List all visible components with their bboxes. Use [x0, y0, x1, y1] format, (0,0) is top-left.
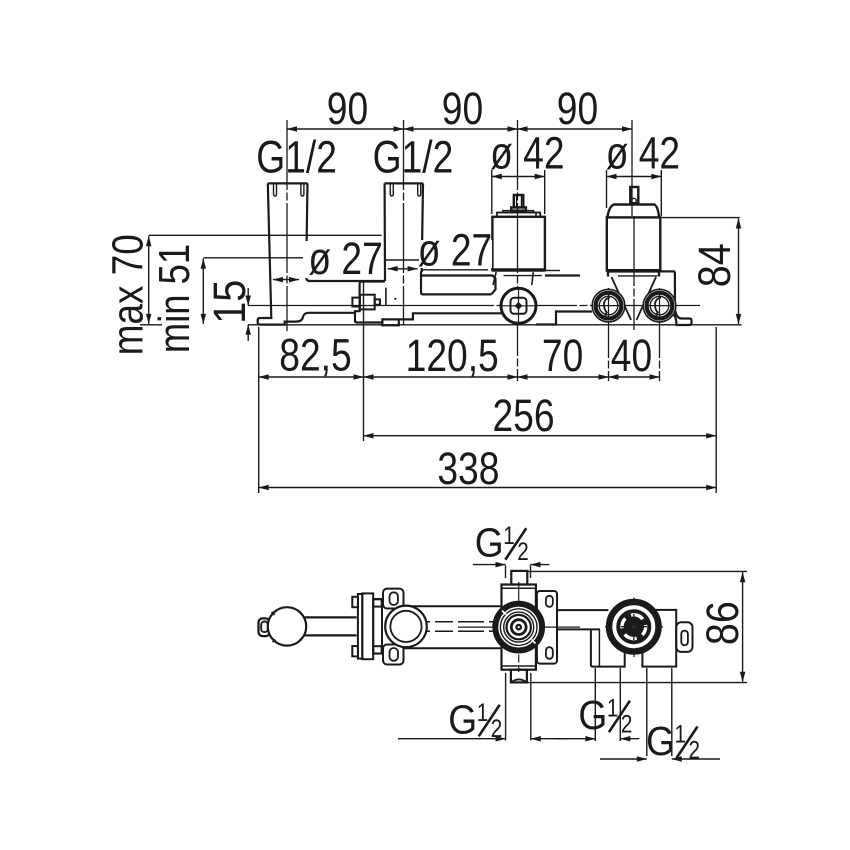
- cartridge2 stem hole: [632, 198, 637, 203]
- svg-text:max 70: max 70: [103, 234, 152, 355]
- svg-text:2: 2: [621, 711, 633, 739]
- ball clip: [259, 618, 270, 636]
- bottom port mouth arc: [511, 679, 526, 682]
- centerline tube1: [286, 120, 288, 331]
- row2 dim 256: [364, 435, 717, 437]
- centerline cartridge2: [631, 120, 633, 216]
- plan bar left: [404, 606, 502, 648]
- plan cartridge circle crosshair: [458, 626, 580, 628]
- svg-text:2: 2: [491, 715, 503, 743]
- right block: [642, 610, 676, 667]
- centerline elbow circle B: [659, 288, 661, 381]
- centerline main axis: [248, 305, 700, 307]
- cartridge1 (diverter): [492, 195, 545, 270]
- min51 dimension line: [202, 259, 204, 324]
- min51 reference line: [203, 257, 306, 259]
- cartridge2 dim ticks: [606, 170, 608, 208]
- plan circle2 rings: [607, 600, 661, 654]
- right end of body: [660, 270, 675, 272]
- circle-square port under cartridge1: [501, 288, 536, 323]
- max70 reference line: [149, 234, 382, 236]
- svg-text:86: 86: [697, 601, 748, 645]
- svg-text:G: G: [646, 718, 675, 764]
- svg-text:70: 70: [542, 330, 583, 381]
- cartridge2 bottom heavy edge: [607, 269, 660, 273]
- svg-text:84: 84: [689, 243, 740, 287]
- svg-text:256: 256: [492, 390, 554, 441]
- bottom port: [511, 670, 527, 683]
- row1 dimension lines: [259, 376, 364, 378]
- svg-text:G: G: [448, 696, 477, 742]
- dim 84 extension top: [660, 217, 740, 219]
- centerline tube2: [403, 120, 405, 325]
- svg-text:2: 2: [689, 737, 701, 765]
- body bottom right of circle1: [536, 312, 592, 325]
- dim arrows o27 tube1: [273, 279, 299, 281]
- center block: [355, 282, 503, 326]
- dim 15 arrows: [247, 288, 249, 306]
- svg-text:ø 27: ø 27: [418, 225, 492, 276]
- row3 dim 338: [259, 487, 717, 489]
- max70 dimension line: [148, 236, 150, 324]
- tube G1/2 left (tube1): [258, 183, 355, 324]
- tube G1/2 right (tube2): [385, 183, 423, 281]
- svg-text:ø 27: ø 27: [308, 233, 382, 284]
- tube1 thread slots: [274, 183, 277, 196]
- G1/2 bottom dim 3: [646, 668, 648, 756]
- svg-text:ø 42: ø 42: [606, 128, 680, 179]
- svg-text:90: 90: [327, 83, 368, 134]
- elbow circle B: [643, 289, 676, 322]
- cartridge1 boss shoulders: [493, 272, 496, 285]
- inlet bolt: [352, 295, 380, 310]
- svg-text:338: 338: [437, 443, 499, 494]
- mounting reference line: [248, 324, 742, 326]
- bottom dim row1 extensions: [258, 327, 260, 493]
- svg-text:G: G: [475, 520, 504, 566]
- label G1/2 plan bottom3: [646, 718, 700, 765]
- cartridge1 dim ticks: [491, 170, 493, 214]
- right ear: [676, 622, 692, 652]
- cartridge1 bottom heavy edge: [493, 268, 545, 272]
- svg-text:G: G: [578, 692, 607, 738]
- label G1/2 plan top: [475, 520, 529, 567]
- dimension 90 row line: [287, 128, 404, 130]
- svg-text:min 51: min 51: [150, 244, 199, 353]
- dim arrows o27 tube2: [388, 268, 418, 270]
- svg-text:40: 40: [611, 330, 652, 381]
- dim 86 extensions: [527, 570, 747, 572]
- bottom tab1: [591, 629, 625, 666]
- cartridge1 stem inner lines: [516, 196, 518, 207]
- label o27 #1 with knockout: [303, 241, 383, 278]
- elbow circle A: [592, 289, 625, 322]
- svg-text:82,5: 82,5: [279, 330, 351, 381]
- housing mount plate: [537, 591, 557, 664]
- min51 tick on tube2: [386, 259, 422, 261]
- V slants to saddle: [612, 277, 632, 320]
- label G1/2 plan bottom2: [578, 692, 632, 739]
- flange ears: [383, 589, 404, 609]
- dim 84 line: [738, 219, 740, 324]
- bottom tab: [382, 313, 503, 325]
- label G1/2 plan bottom1: [448, 696, 502, 743]
- svg-text:2: 2: [517, 538, 529, 566]
- G1/2 bottom dim 1: [505, 673, 507, 741]
- dim arrows o42 cart1: [492, 176, 545, 178]
- housing: [502, 585, 536, 670]
- flange plates: [352, 593, 382, 659]
- svg-text:120,5: 120,5: [406, 330, 499, 381]
- dim arrows o42 cart2: [607, 176, 662, 178]
- body top edge between tubes: [308, 280, 385, 282]
- max70 bottom reference tick: [140, 324, 162, 326]
- svg-text:ø 42: ø 42: [490, 128, 564, 179]
- cartridge2 (mixer): [607, 187, 661, 271]
- cartridge2 boss: [607, 271, 609, 277]
- top port: [511, 571, 527, 585]
- plan cartridge rings: [495, 604, 542, 651]
- flange boss circles: [385, 606, 427, 648]
- tube2 thread slots: [390, 183, 393, 196]
- centerline elbow circle A: [608, 288, 610, 381]
- G1/2 bottom dim 2: [594, 668, 596, 741]
- svg-text:G1/2: G1/2: [373, 132, 454, 183]
- G1/2 top dim: [505, 565, 507, 578]
- plan bar right: [557, 609, 608, 611]
- label o27 #2 with knockout: [419, 240, 492, 268]
- svg-text:15: 15: [204, 280, 255, 324]
- dim 86 line: [742, 572, 744, 682]
- svg-text:G1/2: G1/2: [256, 132, 337, 183]
- right bracket foot: [672, 308, 692, 325]
- svg-text:90: 90: [442, 83, 483, 134]
- plan circle2 crosshair: [605, 626, 663, 628]
- svg-text:90: 90: [557, 83, 598, 134]
- deck lines right of tube2: [422, 269, 489, 271]
- centerline cartridge1: [517, 120, 519, 381]
- body top edge right of cartridge1: [545, 270, 560, 272]
- ball joint: [268, 607, 306, 645]
- hidden port dash: [385, 288, 387, 306]
- spout arm: [304, 616, 357, 618]
